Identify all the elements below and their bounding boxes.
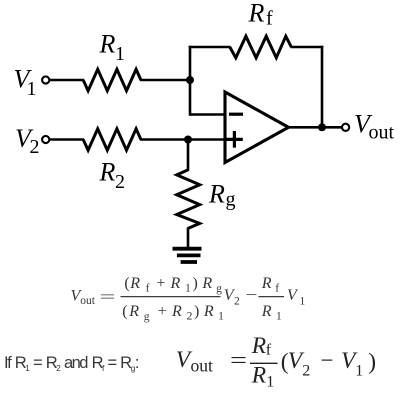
svg-text:R: R <box>99 30 116 59</box>
svg-text:): ) <box>194 303 199 320</box>
svg-text:out: out <box>369 122 395 144</box>
wire R1 to node A <box>140 79 191 82</box>
svg-text:R: R <box>203 303 214 320</box>
svg-text:R: R <box>261 303 272 320</box>
svg-text:out: out <box>80 295 96 307</box>
wire node A vertical <box>189 46 192 116</box>
svg-text:R: R <box>171 303 182 320</box>
svg-text:1: 1 <box>355 363 363 380</box>
svg-text:+: + <box>158 303 167 320</box>
ground <box>173 249 202 262</box>
svg-text:f: f <box>146 283 150 295</box>
svg-text:+: + <box>156 275 165 292</box>
terminal V2 <box>42 136 49 143</box>
svg-text:1: 1 <box>276 311 282 323</box>
svg-text:R: R <box>251 363 266 389</box>
svg-text:=: = <box>100 289 116 306</box>
condition text <box>4 354 139 373</box>
wire top left to Rf <box>189 46 231 49</box>
svg-text:=: = <box>230 348 247 374</box>
svg-text:R: R <box>208 180 225 209</box>
op-amp U1 <box>225 92 289 163</box>
svg-text:): ) <box>368 349 376 375</box>
svg-text:2: 2 <box>302 363 310 380</box>
svg-text:(: ( <box>124 275 129 292</box>
svg-text:R: R <box>129 275 140 292</box>
svg-text:out: out <box>191 356 214 376</box>
svg-text:g: g <box>216 283 222 295</box>
node C output junction dot <box>318 123 326 131</box>
op-amp plus sign <box>227 131 243 148</box>
terminal Vout <box>342 124 349 131</box>
resistor Rf <box>230 36 291 58</box>
wire V2 to R2 <box>50 138 84 141</box>
node B junction dot <box>184 136 192 144</box>
wire op-amp output <box>289 126 342 129</box>
svg-text:2: 2 <box>30 136 40 158</box>
node A junction dot <box>186 76 194 84</box>
svg-text:If R1 = R2 and Rf = Rg:: If R1 = R2 and Rf = Rg: <box>4 354 139 373</box>
wire Rf to right corner <box>291 46 324 49</box>
wire inverting input <box>190 113 225 116</box>
svg-text:(: ( <box>122 303 127 320</box>
svg-text:R: R <box>99 158 116 187</box>
svg-text:R: R <box>261 275 272 292</box>
svg-text:g: g <box>144 311 150 323</box>
svg-text:f: f <box>266 342 272 359</box>
wire V1 to R1 <box>50 79 84 82</box>
svg-text:f: f <box>275 283 279 295</box>
svg-text:1: 1 <box>266 374 274 391</box>
svg-text:1: 1 <box>300 296 306 308</box>
op-amp minus sign <box>229 113 243 116</box>
resistor Rg <box>177 170 200 229</box>
resistor R1 <box>83 69 141 90</box>
svg-text:R: R <box>128 303 139 320</box>
equation 1 <box>71 275 306 323</box>
svg-text:R: R <box>201 275 212 292</box>
equation 2 <box>176 333 376 391</box>
svg-text:1: 1 <box>218 311 224 323</box>
svg-text:R: R <box>248 0 265 28</box>
svg-text:R: R <box>170 275 181 292</box>
svg-text:f: f <box>266 8 273 30</box>
svg-text:1: 1 <box>185 283 191 295</box>
svg-text:−: − <box>321 348 334 374</box>
svg-text:−: − <box>245 287 257 304</box>
svg-text:2: 2 <box>187 311 193 323</box>
wire Rg to ground <box>187 228 190 248</box>
svg-text:): ) <box>193 275 198 292</box>
svg-text:1: 1 <box>115 43 125 65</box>
svg-text:R: R <box>251 333 266 359</box>
wire right vertical to output <box>321 46 324 128</box>
svg-text:2: 2 <box>115 171 125 193</box>
wire R2 to non-inverting input <box>140 138 225 141</box>
terminal V1 <box>42 76 49 83</box>
wire node B down to Rg <box>187 140 190 171</box>
svg-text:g: g <box>226 189 236 211</box>
svg-text:2: 2 <box>234 296 240 308</box>
svg-text:1: 1 <box>27 78 37 100</box>
resistor R2 <box>83 129 141 150</box>
